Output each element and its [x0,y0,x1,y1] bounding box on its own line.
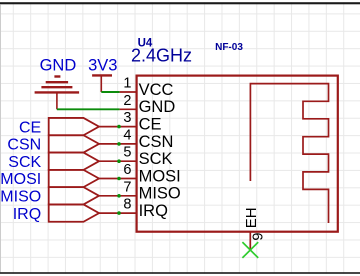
svg-text:IRQ: IRQ [13,206,41,223]
svg-text:CSN: CSN [139,133,174,151]
svg-text:GND: GND [40,56,77,74]
junction dot pin 6 [117,177,121,181]
svg-text:CE: CE [139,116,162,134]
junction dot pin 3 [117,125,121,129]
svg-text:MOSI: MOSI [0,171,41,188]
svg-text:3V3: 3V3 [88,56,117,74]
svg-text:2: 2 [123,93,131,109]
svg-text:MISO: MISO [139,185,181,203]
wire 3V3 to U4 pin 1 [101,91,119,93]
svg-text:MISO: MISO [0,189,41,206]
net flag CSN [7,135,119,153]
junction dot pin 7 [117,194,121,198]
pin 5 (SCK) [120,145,173,168]
pin 3 (CE) [120,110,162,133]
pin 4 (CSN) [120,127,174,150]
svg-text:2.4GHz: 2.4GHz [131,45,192,65]
pin 9 (EH) [243,207,267,250]
svg-text:IRQ: IRQ [139,202,169,220]
svg-text:9: 9 [251,233,267,241]
svg-text:6: 6 [123,162,131,178]
power symbol GND [35,77,80,110]
svg-text:SCK: SCK [139,150,173,168]
svg-text:5: 5 [123,145,131,161]
antenna graphic inside U4 [250,84,328,223]
net flag IRQ [13,204,120,222]
svg-text:NF-03: NF-03 [215,42,243,53]
net flag MOSI [0,170,119,188]
component U4 body [137,76,338,232]
junction dot pin 5 [117,159,121,163]
svg-text:VCC: VCC [139,81,174,99]
no-connect flag on pin 9 [242,242,258,258]
power symbol 3V3 [92,75,112,92]
svg-text:GND: GND [139,98,176,116]
svg-text:3: 3 [123,110,131,126]
svg-text:MOSI: MOSI [139,167,181,185]
svg-text:8: 8 [123,197,131,213]
net flag CE [19,118,120,136]
svg-text:EH: EH [243,207,260,228]
net flag SCK [8,153,119,171]
pin 2 (GND) [120,93,176,116]
svg-text:4: 4 [123,127,131,143]
svg-text:SCK: SCK [8,154,41,171]
svg-text:CE: CE [19,119,41,136]
svg-text:1: 1 [123,76,131,92]
pin 1 (VCC) [120,76,174,99]
junction dot pin 4 [117,142,121,146]
svg-text:7: 7 [123,179,131,195]
net flag MISO [0,187,119,205]
pin 8 (IRQ) [120,197,169,220]
junction dot pin 8 [117,211,121,215]
svg-text:CSN: CSN [7,137,41,154]
wire GND to U4 pin 2 [57,108,120,110]
pin 6 (MOSI) [120,162,181,185]
pin 7 (MISO) [120,179,181,202]
